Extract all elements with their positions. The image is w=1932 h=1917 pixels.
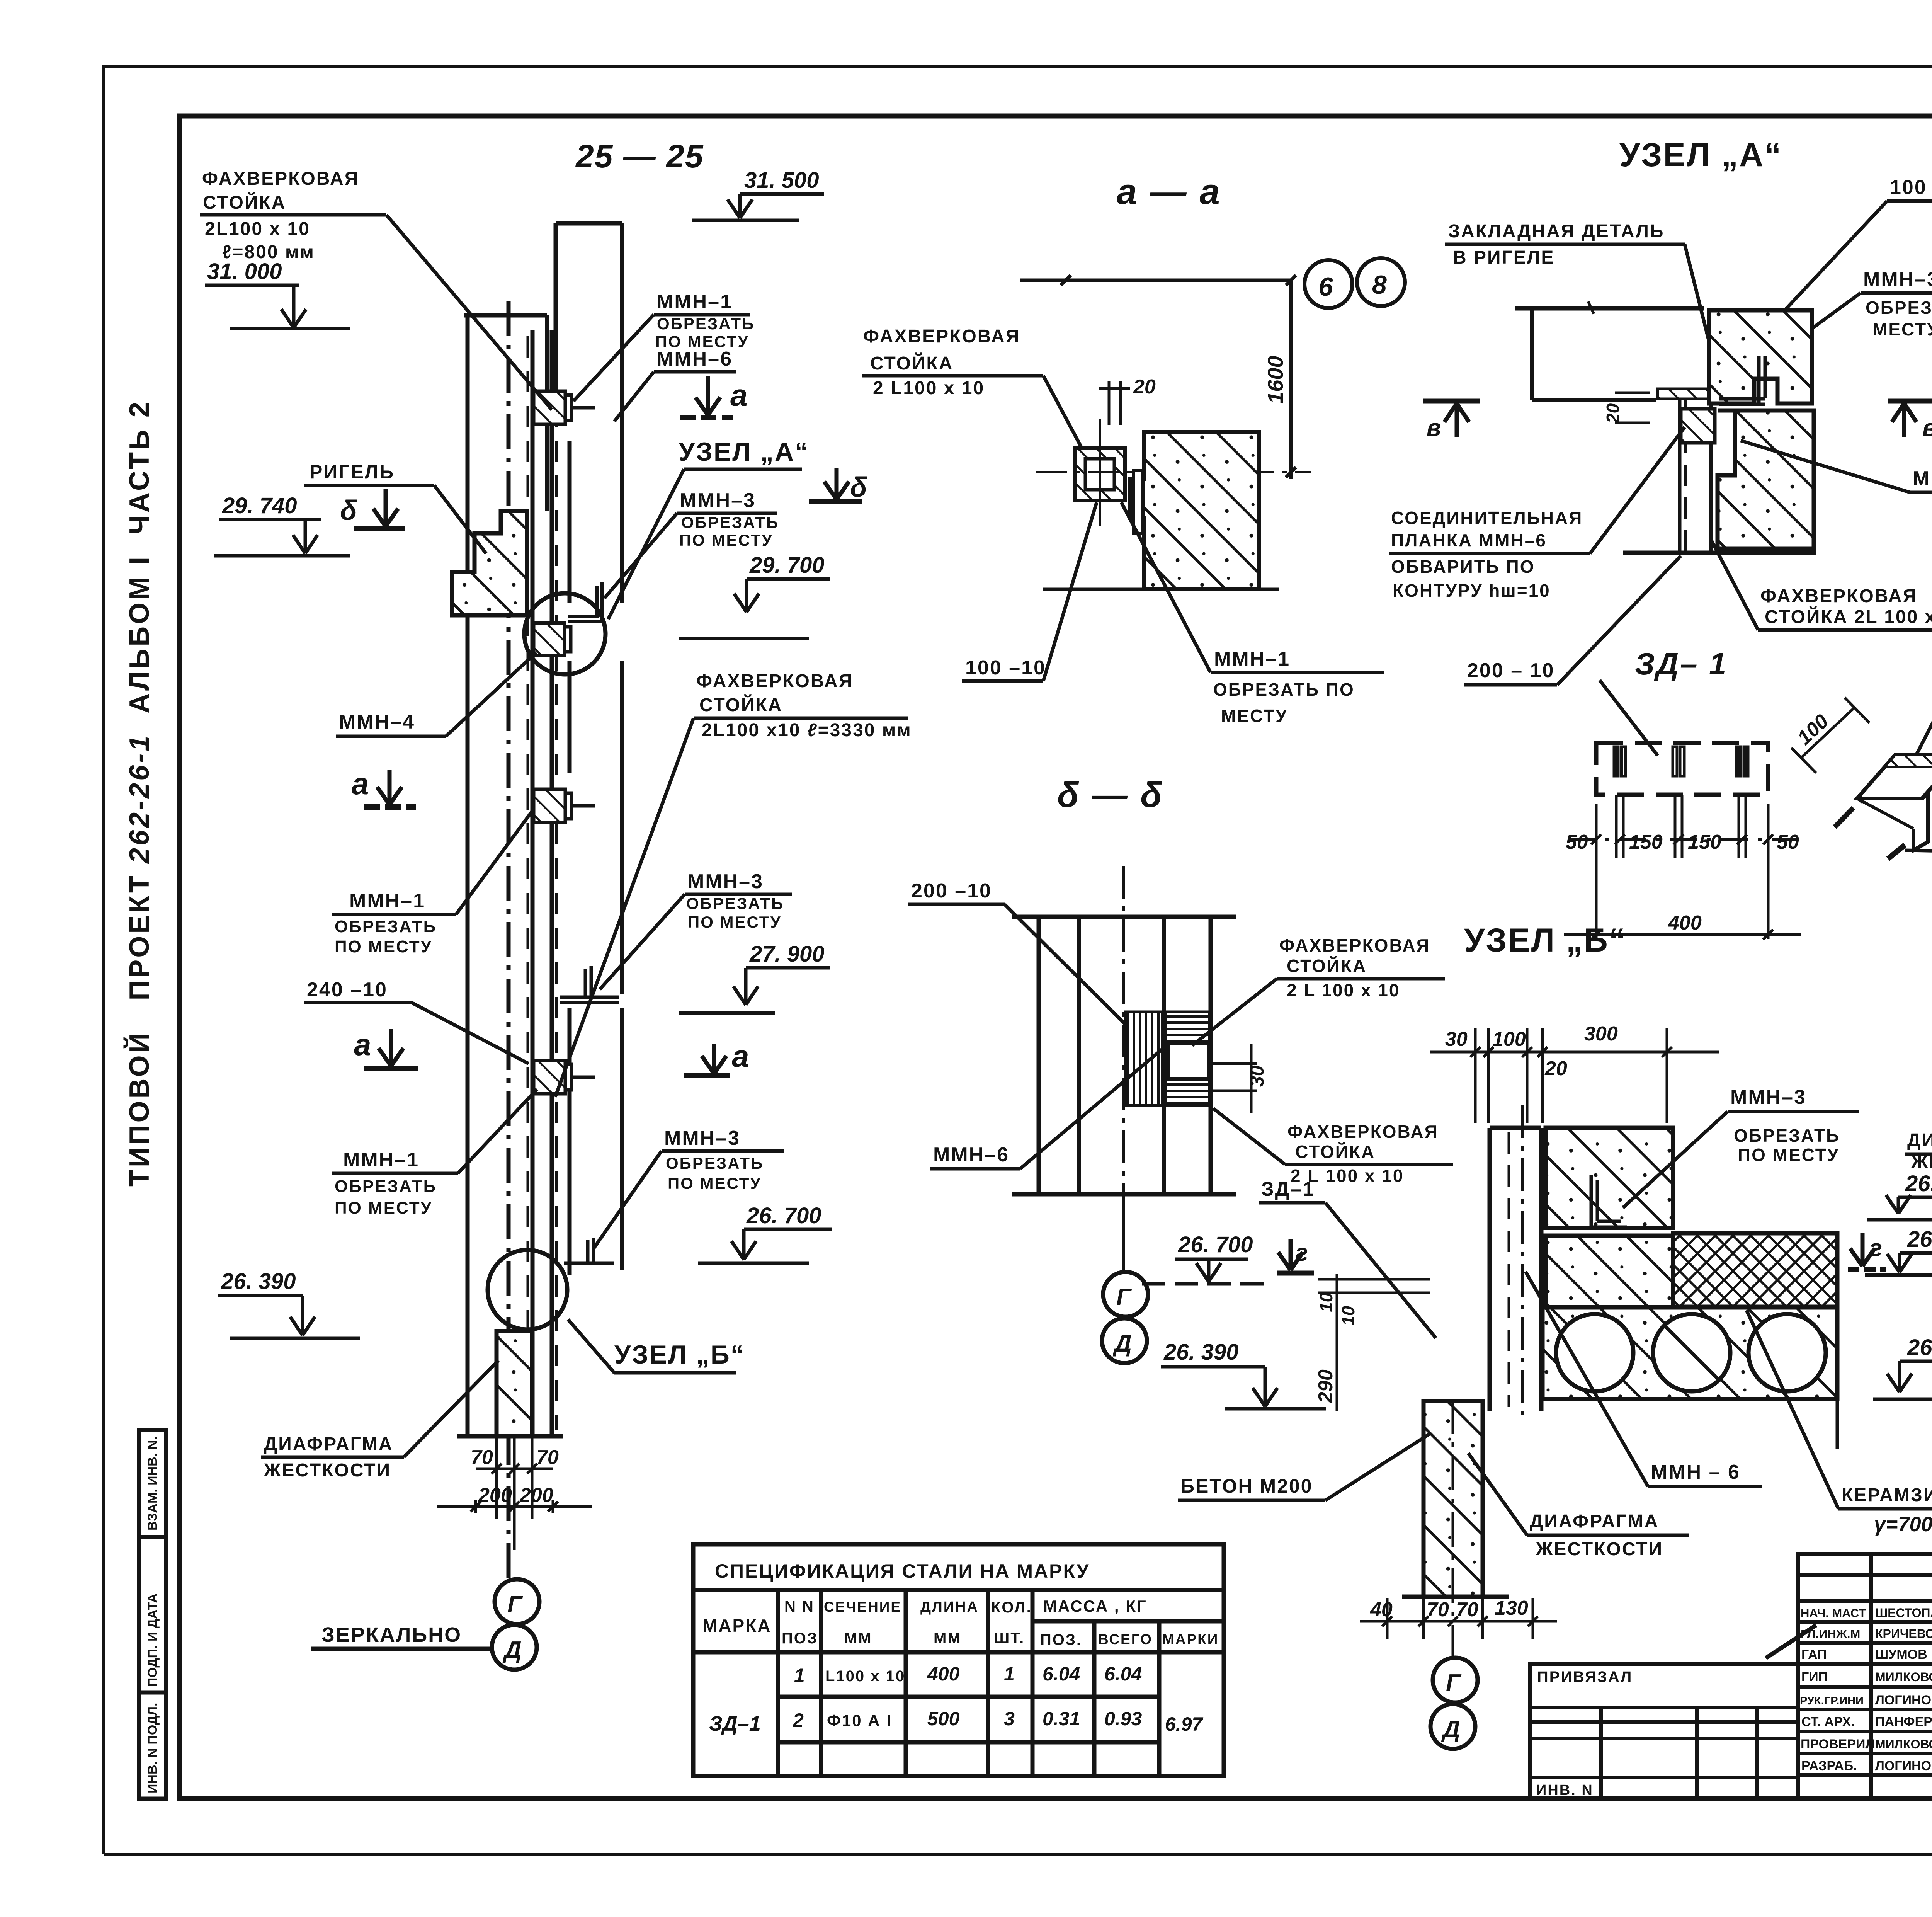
fachwerk post dashed edges [527,336,529,1430]
svg-text:130: 130 [1495,1597,1528,1619]
bent plate MMH-3 in nodeB [1591,1175,1627,1227]
svg-text:1: 1 [1004,1663,1015,1685]
svg-text:ПО МЕСТУ: ПО МЕСТУ [679,531,773,549]
svg-text:ФАХВЕРКОВАЯ: ФАХВЕРКОВАЯ [202,169,359,189]
svg-text:ДИАФРАГМА: ДИАФРАГМА [1530,1511,1659,1532]
upper-left panel [464,313,547,318]
svg-text:ММН–4: ММН–4 [339,711,415,733]
MMH-3 bent plate at 26.700 [564,1238,614,1263]
svg-text:ОБРЕЗАТЬ: ОБРЕЗАТЬ [666,1154,764,1172]
svg-text:ММН–3: ММН–3 [680,489,756,512]
svg-text:500: 500 [927,1708,960,1730]
section mark b right [809,468,862,502]
svg-text:30: 30 [1246,1065,1268,1087]
svg-text:31. 500: 31. 500 [744,168,819,193]
privyazal box [1530,1664,1798,1799]
svg-text:8: 8 [1372,270,1387,300]
axis line column [507,301,511,1579]
dim 30 b-b [1213,1044,1257,1113]
DETAIL b-b [908,775,1453,1411]
svg-text:a: a [730,378,748,412]
section mark a left2 [364,770,416,807]
axis bubble 6 [1304,260,1352,308]
MMH-3 bent plate in node A [568,582,602,621]
svg-text:ИНВ. N: ИНВ. N [1536,1782,1594,1798]
svg-text:СЕЧЕНИЕ: СЕЧЕНИЕ [824,1599,901,1615]
svg-text:ОБРЕЗАТЬ: ОБРЕЗАТЬ [1734,1125,1840,1146]
svg-text:70: 70 [471,1446,493,1469]
dim 100 rotated [1791,698,1869,773]
svg-text:ЖЕСТКОСТИ: ЖЕСТКОСТИ [1911,1152,1932,1172]
svg-text:г: г [1295,1239,1308,1266]
svg-text:ОБРЕЗАТЬ: ОБРЕЗАТЬ [681,513,779,531]
anchor bars [1614,747,1748,858]
keramzit layer cross hatch [1673,1233,1837,1307]
section mark a right1 [680,376,733,417]
svg-text:МАРКИ: МАРКИ [1162,1631,1219,1647]
svg-text:70: 70 [536,1446,559,1469]
NODE A DETAIL [1389,136,1932,685]
svg-text:ПРОВЕРИЛ: ПРОВЕРИЛ [1801,1737,1874,1752]
axis bubble 8 [1357,258,1405,306]
svg-text:ПО МЕСТУ: ПО МЕСТУ [335,937,432,956]
svg-text:Г: Г [1116,1284,1132,1311]
svg-text:ШУМОВ: ШУМОВ [1875,1647,1927,1662]
svg-text:400: 400 [1668,912,1702,934]
svg-text:г: г [1869,1235,1882,1262]
svg-text:ФАХВЕРКОВАЯ: ФАХВЕРКОВАЯ [696,671,853,691]
right panel edges lower [620,1008,624,1270]
dims 50 150 150 50 [1568,804,1801,939]
svg-text:ЖЕСТКОСТИ: ЖЕСТКОСТИ [264,1460,391,1481]
svg-text:δ — δ: δ — δ [1057,775,1163,815]
section mark a right3 [684,1044,730,1076]
leader from ZD-1 label [1600,680,1658,756]
LEFT LABELS of 25-25 [200,169,552,1481]
svg-text:ЛОГИНОВА: ЛОГИНОВА [1875,1759,1932,1773]
svg-text:ПО МЕСТУ: ПО МЕСТУ [668,1174,762,1192]
svg-text:РИГЕЛЬ: РИГЕЛЬ [310,461,395,483]
DETAIL a-a [862,171,1405,726]
svg-text:СТОЙКА: СТОЙКА [699,694,782,715]
ground line under column [457,1434,563,1439]
slab right cut edge [1836,1272,1839,1449]
svg-text:ШТ.: ШТ. [994,1630,1025,1647]
svg-text:ПОЗ.: ПОЗ. [782,1630,823,1647]
svg-text:ММН–1: ММН–1 [1214,648,1290,670]
svg-text:СТОЙКА: СТОЙКА [203,192,286,213]
svg-text:26. 390: 26. 390 [1163,1340,1239,1365]
svg-text:N N: N N [784,1598,815,1615]
svg-text:МЕСТУ: МЕСТУ [1221,706,1288,726]
bearing concrete below rigel [1546,1236,1673,1307]
center lines a-a [1036,471,1311,473]
axis bubbles G D bottom of section [495,1579,539,1624]
section mark g at 26.700 [1277,1239,1314,1273]
svg-text:31. 000: 31. 000 [207,259,282,284]
hatch details center b-b [1126,1012,1162,1105]
svg-text:a — a: a — a [1117,171,1221,212]
svg-text:200 –10: 200 –10 [911,880,992,902]
svg-text:2 L 100 x 10: 2 L 100 x 10 [1287,980,1400,1000]
svg-text:0.93: 0.93 [1104,1708,1142,1730]
svg-text:50: 50 [1777,831,1799,853]
stray check mark [1766,1625,1816,1658]
svg-text:10: 10 [1338,1306,1358,1326]
fachwerk post right angle [550,330,554,1434]
svg-text:ПРИВЯЗАЛ: ПРИВЯЗАЛ [1537,1668,1633,1685]
svg-text:МАРКА: МАРКА [702,1616,772,1636]
MMH-3 bent plate at 27.900 [560,966,619,1003]
concrete panel a-a [1130,432,1259,589]
svg-text:УЗЕЛ „А“: УЗЕЛ „А“ [679,437,809,466]
G_SIDEBAR [139,1430,166,1799]
svg-text:ПО МЕСТУ: ПО МЕСТУ [1738,1145,1839,1165]
rigel concrete nodeB [1546,1128,1673,1228]
svg-text:20: 20 [1603,403,1623,424]
svg-text:ЗД– 1: ЗД– 1 [1635,647,1728,681]
svg-text:1: 1 [794,1665,805,1686]
svg-text:29. 700: 29. 700 [749,553,825,578]
svg-text:3: 3 [1004,1708,1015,1730]
MMH-1 bolt detail nodeA [1681,409,1715,443]
svg-text:ВСЕГО: ВСЕГО [1098,1631,1153,1647]
svg-text:100 –10: 100 –10 [965,657,1046,679]
svg-text:Ф10 А I: Ф10 А I [827,1711,892,1730]
staff names [1800,1606,1932,1773]
section mark b left [354,489,405,529]
svg-text:СТОЙКА: СТОЙКА [870,352,953,374]
svg-text:150: 150 [1688,831,1721,853]
svg-text:100: 100 [1492,1028,1526,1050]
rigel beam top [1515,301,1704,400]
svg-text:ТИПОВОЙ ПРОЕКТ 262-26-1 АЛЬ: ТИПОВОЙ ПРОЕКТ 262-26-1 АЛЬБОМ I ЧАСТЬ 2 [123,400,155,1187]
svg-text:Д: Д [1441,1716,1460,1743]
svg-text:70: 70 [1427,1599,1449,1621]
svg-text:70: 70 [1456,1599,1478,1621]
svg-text:СТОЙКА: СТОЙКА [1295,1142,1375,1162]
svg-text:a: a [352,766,369,801]
svg-text:ММН–1: ММН–1 [656,291,733,313]
svg-text:ММН – 6: ММН – 6 [1651,1461,1740,1483]
angle sketch [1835,755,1932,859]
svg-text:6.97: 6.97 [1165,1713,1204,1735]
svg-text:НАЧ. МАСТ: НАЧ. МАСТ [1801,1606,1866,1620]
wall panel nodeB [1490,1105,1541,1415]
inner drawing frame [180,116,1932,1799]
svg-text:20: 20 [1544,1057,1567,1080]
MMH-3 bent plate nodeA [1719,356,1765,404]
svg-text:ММ: ММ [934,1630,962,1647]
plate plan dashed [1596,743,1768,795]
svg-text:МАССА , КГ: МАССА , КГ [1043,1597,1147,1615]
svg-text:γ=700: γ=700 [1874,1513,1932,1536]
svg-text:26. 400: 26. 400 [1907,1335,1932,1360]
dimension 70 70 [476,1436,553,1550]
svg-text:6: 6 [1318,272,1333,301]
diaphragm concrete column [497,1331,532,1436]
fachwerk post left angle [531,330,535,1434]
axis bubbles G D nodeB [1433,1658,1478,1702]
svg-text:150: 150 [1629,831,1663,853]
svg-text:ОБРЕЗАТЬ ПО: ОБРЕЗАТЬ ПО [1213,679,1355,700]
staff table [1798,1554,1932,1799]
svg-text:26. 700: 26. 700 [1178,1232,1253,1257]
svg-text:ЖЕСТКОСТИ: ЖЕСТКОСТИ [1536,1539,1663,1559]
svg-text:ШЕСТОПАЛОВ: ШЕСТОПАЛОВ [1875,1606,1932,1620]
svg-text:200 – 10: 200 – 10 [1467,659,1554,682]
svg-text:СТ. АРХ.: СТ. АРХ. [1801,1714,1855,1729]
svg-text:ЗД–1: ЗД–1 [1261,1178,1315,1200]
svg-text:МЕСТУ: МЕСТУ [1872,319,1932,339]
svg-text:300: 300 [1584,1023,1618,1045]
svg-text:ММН–1: ММН–1 [343,1149,419,1171]
svg-text:КЕРАМЗИТОБЕТОН: КЕРАМЗИТОБЕТОН [1842,1485,1932,1505]
connector MMH-1 mid [534,789,595,822]
ZD-1 PLAN DETAIL [1564,647,1932,940]
svg-text:СТОЙКА: СТОЙКА [1287,956,1367,976]
closure strip 100-10 a-a [1134,470,1143,533]
wall panel left edge [466,315,470,1436]
svg-text:2: 2 [793,1709,804,1731]
svg-text:26. 390: 26. 390 [221,1269,296,1294]
svg-text:ФАХВЕРКОВАЯ: ФАХВЕРКОВАЯ [863,326,1020,347]
svg-text:δ: δ [340,495,357,526]
post verticals nodeA [1680,399,1711,553]
svg-text:ДИАФРАГМА: ДИАФРАГМА [1907,1130,1932,1151]
svg-text:50: 50 [1566,831,1588,853]
connector MMH-1 top [534,391,595,424]
SECTION 25-25 [311,138,704,1670]
svg-text:1600: 1600 [1263,356,1287,404]
svg-text:ГИП: ГИП [1801,1670,1828,1684]
svg-text:Г: Г [1446,1670,1462,1696]
svg-text:25 — 25: 25 — 25 [575,138,704,174]
wire leader to post [386,215,552,410]
lower concrete block nodeA [1718,410,1814,549]
svg-text:ММН–3: ММН–3 [1863,268,1932,291]
section mark v right [1888,401,1932,437]
svg-text:290: 290 [1315,1369,1337,1403]
panel b-b [1012,917,1236,1194]
svg-text:2L100 x10 ℓ=3330 мм: 2L100 x10 ℓ=3330 мм [702,720,912,741]
section mark g right [1848,1233,1886,1269]
svg-text:РАЗРАБ.: РАЗРАБ. [1801,1759,1857,1773]
hollow core slab [1543,1308,1837,1399]
svg-text:ПО МЕСТУ: ПО МЕСТУ [335,1199,432,1217]
svg-text:ВЗАМ. ИНВ. N.: ВЗАМ. ИНВ. N. [145,1436,160,1531]
svg-text:БЕТОН М200: БЕТОН М200 [1180,1475,1313,1497]
svg-text:УЗЕЛ „Б“: УЗЕЛ „Б“ [614,1340,745,1369]
svg-text:РУК.ГР.ИНИ: РУК.ГР.ИНИ [1800,1695,1864,1707]
right panel top cap [556,221,622,226]
svg-text:ММН–1: ММН–1 [349,890,425,912]
svg-text:СПЕЦИФИКАЦИЯ СТАЛИ НА МАРКУ: СПЕЦИФИКАЦИЯ СТАЛИ НА МАРКУ [715,1560,1090,1582]
bottom dims 40 70 70 130 [1360,1598,1557,1639]
svg-text:ФАХВЕРКОВАЯ: ФАХВЕРКОВАЯ [1760,586,1917,606]
svg-text:ММН–6: ММН–6 [933,1144,1009,1166]
svg-text:ЗД–1: ЗД–1 [709,1712,761,1735]
svg-text:2 L100 x 10: 2 L100 x 10 [873,378,985,398]
svg-text:Г: Г [507,1591,523,1618]
embedded plate hatched [1658,389,1716,399]
svg-text:ОБРЕЗАТЬ ПО: ОБРЕЗАТЬ ПО [1866,298,1932,318]
svg-text:100 –10: 100 –10 [1890,176,1932,199]
svg-text:6.04: 6.04 [1104,1663,1142,1685]
svg-text:ФАХВЕРКОВАЯ: ФАХВЕРКОВАЯ [1287,1122,1439,1142]
section mark v left [1423,401,1480,437]
svg-text:0.31: 0.31 [1043,1708,1080,1730]
RIGHT LABELS of 25-25 [555,168,912,1373]
top concrete block nodeA [1709,310,1812,403]
svg-text:КРИЧЕВСКИЙ: КРИЧЕВСКИЙ [1875,1627,1932,1641]
svg-text:ММН–3: ММН–3 [1730,1086,1806,1108]
svg-text:a: a [354,1027,371,1062]
svg-text:ПО МЕСТУ: ПО МЕСТУ [688,913,782,931]
svg-text:СТОЙКА 2L 100 x10: СТОЙКА 2L 100 x10 [1765,606,1932,627]
joint dims 10 10 290 [1318,1274,1430,1411]
svg-text:ММ: ММ [844,1630,872,1647]
svg-text:ММН–6: ММН–6 [656,348,733,370]
svg-text:26. 700: 26. 700 [746,1203,821,1228]
dim 400 [1564,930,1801,940]
section mark a left3 [364,1029,418,1068]
TITLE BLOCK [1530,1554,1932,1840]
axis below column [1452,1399,1454,1657]
svg-text:ДЛИНА: ДЛИНА [920,1599,979,1615]
svg-text:ММН–3: ММН–3 [687,870,764,893]
svg-text:ОБРЕЗАТЬ: ОБРЕЗАТЬ [657,315,755,333]
svg-text:ЗЕРКАЛЬНО: ЗЕРКАЛЬНО [321,1623,462,1646]
dim 20 gap [1099,381,1130,425]
svg-text:30: 30 [1445,1028,1468,1050]
svg-text:ГАП: ГАП [1801,1647,1827,1662]
svg-text:ММН–4: ММН–4 [1913,467,1932,490]
node B circle on column [488,1250,567,1330]
svg-text:29. 740: 29. 740 [222,493,297,518]
svg-text:40: 40 [1370,1599,1393,1621]
svg-text:В РИГЕЛЕ: В РИГЕЛЕ [1453,247,1554,268]
svg-text:ПЛАНКА ММН–6: ПЛАНКА ММН–6 [1391,530,1547,550]
svg-text:УЗЕЛ „Б“: УЗЕЛ „Б“ [1464,922,1627,959]
svg-text:δ: δ [850,472,867,503]
svg-text:240 –10: 240 –10 [307,979,388,1001]
MMH-4 connector in node A [534,623,571,655]
svg-text:УЗЕЛ „А“: УЗЕЛ „А“ [1619,136,1782,174]
connector MMH-1 lower [534,1061,595,1094]
svg-text:2L100 x 10: 2L100 x 10 [205,219,310,239]
svg-text:ПОДП. И ДАТА: ПОДП. И ДАТА [145,1594,160,1687]
svg-text:КОНТУРУ hш=10: КОНТУРУ hш=10 [1393,581,1551,601]
svg-text:в: в [1922,415,1932,441]
svg-text:ОБРЕЗАТЬ: ОБРЕЗАТЬ [335,1177,437,1196]
svg-text:ОБРЕЗАТЬ: ОБРЕЗАТЬ [335,917,437,936]
column below slab [1423,1401,1483,1597]
svg-text:ДИАФРАГМА: ДИАФРАГМА [264,1434,393,1454]
SPEC TABLE [693,1544,1224,1776]
NODE B DETAIL [1178,922,1932,1749]
svg-text:СОЕДИНИТЕЛЬНАЯ: СОЕДИНИТЕЛЬНАЯ [1391,508,1583,528]
svg-text:МИЛКОВСКИЙ: МИЛКОВСКИЙ [1875,1670,1932,1684]
axis G D bubbles b-b [1122,1194,1125,1272]
svg-text:ЗАКЛАДНАЯ ДЕТАЛЬ: ЗАКЛАДНАЯ ДЕТАЛЬ [1448,221,1664,242]
top dims 30 100 300 20 [1430,1028,1719,1123]
svg-text:ПОЗ.: ПОЗ. [1040,1631,1082,1648]
svg-text:ИНВ. N ПОДЛ.: ИНВ. N ПОДЛ. [145,1703,160,1793]
steel box profile a-a [1075,448,1125,501]
svg-text:L100 x 10: L100 x 10 [825,1668,905,1685]
svg-text:ФАХВЕРКОВАЯ: ФАХВЕРКОВАЯ [1279,935,1430,955]
svg-text:20: 20 [1133,376,1156,398]
dimension 200 200 [437,1500,592,1513]
svg-text:200: 200 [478,1484,512,1507]
svg-text:ММН–3: ММН–3 [664,1127,740,1149]
svg-text:27. 900: 27. 900 [749,941,825,967]
slab voids [1556,1314,1633,1391]
svg-text:МИЛКОВСКИЙ: МИЛКОВСКИЙ [1875,1737,1932,1751]
svg-text:a: a [732,1039,749,1073]
rigel concrete [452,511,527,615]
node A circle on column [524,593,605,674]
svg-text:в: в [1427,415,1441,441]
dim line to axis bubbles [1020,275,1296,479]
svg-text:200: 200 [519,1484,553,1507]
svg-text:6.04: 6.04 [1043,1663,1080,1685]
svg-text:26.830: 26.830 [1905,1171,1932,1196]
svg-text:400: 400 [927,1663,960,1685]
svg-text:Д: Д [1112,1330,1132,1357]
svg-text:26. 700: 26. 700 [1907,1227,1932,1252]
dim 20 nodeA [1615,393,1650,423]
svg-text:ЛОГИНОВА: ЛОГИНОВА [1875,1693,1932,1708]
svg-text:10: 10 [1316,1292,1336,1312]
right panel edges upper [554,223,558,390]
svg-text:Д: Д [502,1637,522,1663]
svg-text:ОБРЕЗАТЬ: ОБРЕЗАТЬ [686,894,784,913]
svg-text:ПАНФЕРОВ: ПАНФЕРОВ [1875,1714,1932,1729]
svg-text:ОБВАРИТЬ ПО: ОБВАРИТЬ ПО [1391,557,1535,577]
svg-text:КОЛ.: КОЛ. [991,1599,1032,1616]
